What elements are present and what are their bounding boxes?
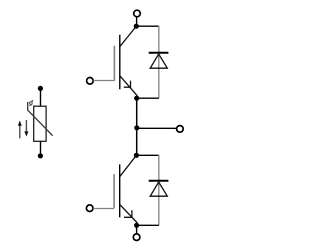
wire: thermistor body to bottom dot <box>40 141 42 156</box>
terminal: emitter E2 (bottom, open circle) <box>133 234 140 241</box>
wire: top diode branch vertical <box>158 26 160 99</box>
thermistor RT1 node A (top dot) <box>38 86 43 91</box>
wire: diode branch to node N5 (bottom horizontal) <box>137 224 159 226</box>
wire: main bus N2 to N4 <box>136 98 138 155</box>
IGBT Q1 body bar <box>119 35 121 90</box>
wire: node N4 to diode branch (top horizontal) <box>136 154 158 156</box>
IGBT Q2 emitter arrow <box>124 210 132 217</box>
IGBT Q1 emitter lead (diagonal) <box>120 76 138 96</box>
IGBT Q1 gate bar <box>113 46 115 81</box>
diode D1 cathode bar <box>149 52 169 54</box>
IGBT Q2 emitter lead (diagonal) <box>120 204 138 223</box>
wire: node N5 to bottom terminal <box>136 225 138 234</box>
IGBT Q2 body bar <box>119 164 121 217</box>
thermistor RT1 temperature diagonal with hook <box>28 102 53 136</box>
wire: node N1 to diode branch (top horizontal) <box>136 25 159 27</box>
wire: diode branch to node N2 (bottom horizontal) <box>137 97 159 99</box>
diode D2 triangle <box>150 182 167 196</box>
IGBT Q2 collector lead (diagonal) <box>120 155 137 176</box>
IGBT Q1 collector lead (diagonal) <box>120 26 137 47</box>
up arrow (temperature) <box>19 125 21 139</box>
IGBT Q2 gate bar <box>113 174 115 208</box>
thermistor theta-degree glyph <box>29 102 32 106</box>
wire: N3 to output terminal <box>137 127 177 129</box>
wire: top terminal to node N1 <box>136 17 138 26</box>
node N5 (bottom emitter junction) <box>134 223 139 228</box>
down arrow (resistance) <box>25 120 27 132</box>
IGBT Q2 gate terminal (open circle) <box>86 205 93 212</box>
IGBT Q1 gate terminal (open circle) <box>87 78 94 85</box>
thermistor RT1 body (rectangle) <box>34 106 46 141</box>
wire: Q1 gate lead <box>93 80 114 82</box>
wire: thermistor top dot to body <box>40 88 42 106</box>
IGBT Q1 emitter arrow <box>124 81 131 88</box>
wire: bottom diode branch vertical <box>158 155 160 226</box>
thermistor RT1 node B (bottom dot) <box>38 153 43 158</box>
node N1 (top collector junction) <box>134 24 139 29</box>
terminal: collector C1 (top, open circle) <box>134 10 141 17</box>
node N2 (top emitter junction) <box>134 96 139 101</box>
wire: Q2 gate lead <box>93 208 114 210</box>
diode D2 cathode bar <box>149 180 169 182</box>
node N4 (bottom collector junction) <box>134 153 139 158</box>
terminal: output (mid, open circle) <box>177 126 184 133</box>
node N3 (midpoint junction) <box>134 125 139 130</box>
diode D1 triangle <box>150 54 167 68</box>
